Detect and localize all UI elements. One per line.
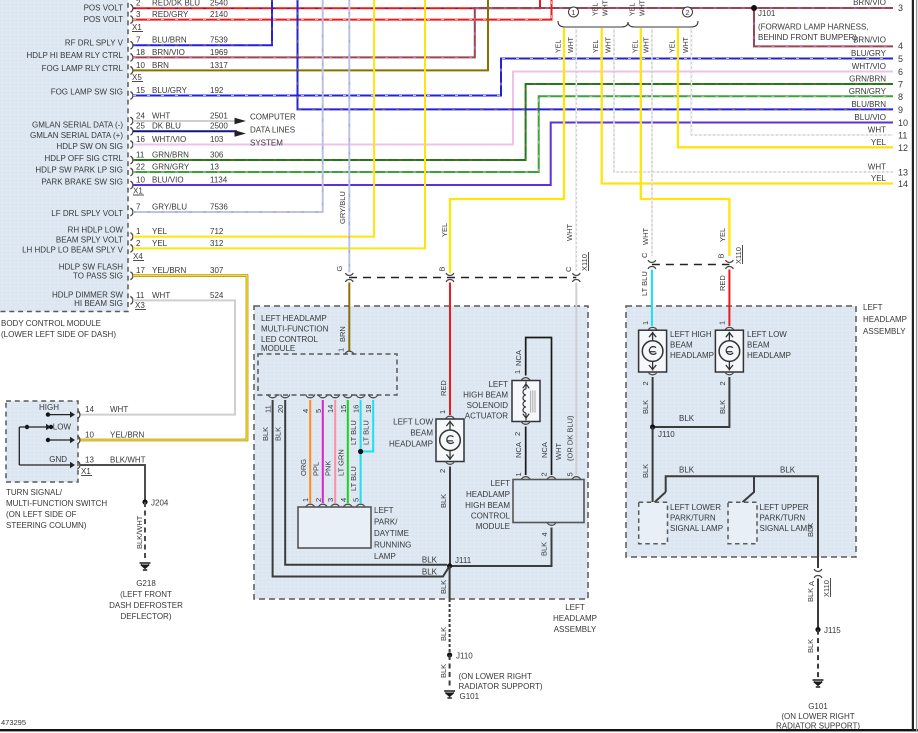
svg-text:(ON LOWER RIGHT: (ON LOWER RIGHT	[781, 712, 854, 721]
svg-text:LT BLU: LT BLU	[349, 420, 358, 445]
svg-text:X110: X110	[822, 580, 831, 597]
svg-text:16: 16	[352, 405, 361, 413]
svg-text:6: 6	[898, 67, 903, 77]
actuator pin 1 bracket	[521, 378, 530, 381]
svg-text:WHT: WHT	[640, 0, 647, 16]
svg-text:BRN/VIO: BRN/VIO	[152, 48, 185, 57]
svg-text:ASSEMBLY: ASSEMBLY	[863, 327, 906, 336]
svg-text:DASH DEFROSTER: DASH DEFROSTER	[109, 601, 183, 610]
svg-text:ORG: ORG	[299, 459, 308, 476]
svg-text:HEADLAMP: HEADLAMP	[553, 614, 597, 623]
wire YEL/BRN 307 BCM to switch pin 10	[80, 276, 247, 440]
svg-text:X1: X1	[132, 23, 142, 32]
svg-text:7: 7	[898, 80, 903, 90]
actuator pin 2 bracket	[521, 421, 530, 424]
svg-text:LEFT: LEFT	[374, 506, 394, 515]
left headlamp assembly box	[254, 306, 588, 599]
svg-text:2: 2	[136, 239, 141, 248]
svg-text:RADIATOR SUPPORT): RADIATOR SUPPORT)	[459, 682, 543, 691]
wire BLK left low beam to J111	[449, 467, 451, 567]
connector X110 terminal B right	[726, 260, 734, 262]
turn signal / multi-function switch S1 box	[6, 401, 78, 482]
svg-text:BLK: BLK	[679, 466, 695, 475]
svg-text:3: 3	[326, 498, 335, 502]
svg-text:BLU/BRN: BLU/BRN	[152, 36, 187, 45]
left upper park/turn signal lamp box	[728, 502, 757, 544]
svg-text:LEFT LOWER: LEFT LOWER	[670, 503, 721, 512]
svg-text:BLK: BLK	[718, 400, 727, 414]
wire YEL to right edge 12	[678, 28, 893, 147]
switch pin brackets + numbers	[77, 411, 79, 419]
svg-text:LT BLU: LT BLU	[362, 420, 371, 445]
svg-text:BLK: BLK	[439, 627, 448, 641]
wire YEL to right edge 14	[602, 28, 893, 184]
HB control module pin 1 bracket	[521, 477, 530, 480]
svg-text:MODULE: MODULE	[476, 522, 510, 531]
wire BLK pin 11 to J111	[273, 400, 450, 577]
wire BLK/WHT switch pin 13 to J204	[80, 465, 145, 502]
svg-text:STEERING COLUMN): STEERING COLUMN)	[6, 521, 87, 530]
wire GRY/BLU from top to X110-G	[348, 0, 350, 273]
lamp bulb: left high beam headlamp	[648, 327, 657, 330]
svg-text:YEL: YEL	[152, 227, 168, 236]
wire PNK pin 14 to lamp pin 3	[334, 400, 336, 503]
svg-text:RED: RED	[718, 275, 727, 291]
svg-text:CONTROL: CONTROL	[471, 512, 511, 521]
svg-text:WHT/VIO: WHT/VIO	[852, 62, 886, 71]
svg-text:X110: X110	[734, 247, 743, 264]
svg-text:BLK: BLK	[806, 639, 815, 653]
svg-text:10: 10	[85, 431, 94, 440]
connector X110 terminal C right	[648, 260, 656, 262]
svg-text:MODULE: MODULE	[261, 344, 295, 353]
svg-text:LH HDLP LO BEAM SPLY V: LH HDLP LO BEAM SPLY V	[22, 245, 124, 254]
svg-text:YEL: YEL	[669, 40, 676, 53]
X110 harness dashed line (right)	[652, 264, 730, 266]
svg-text:2: 2	[136, 0, 141, 8]
svg-text:LEFT HEADLAMP: LEFT HEADLAMP	[261, 314, 327, 323]
svg-text:C: C	[564, 266, 573, 272]
svg-text:11: 11	[264, 405, 273, 413]
svg-text:10: 10	[898, 118, 908, 128]
svg-text:312: 312	[210, 239, 224, 248]
junction J111	[447, 563, 452, 568]
svg-text:ACTUATOR: ACTUATOR	[465, 412, 508, 421]
switch common wire to GND pin	[18, 427, 20, 465]
svg-text:PARK/: PARK/	[374, 518, 398, 527]
svg-text:WHT: WHT	[868, 163, 886, 172]
svg-text:11: 11	[136, 291, 145, 300]
wire BLK high beam to J110	[652, 377, 654, 427]
svg-text:NCA: NCA	[514, 350, 523, 366]
svg-text:LEFT HIGH: LEFT HIGH	[670, 330, 712, 339]
wire BLU/GRY 192 to right edge 5	[133, 59, 893, 96]
svg-text:SOLENOID: SOLENOID	[467, 401, 509, 410]
svg-text:BLK: BLK	[806, 523, 815, 537]
svg-text:BLU/GRY: BLU/GRY	[152, 86, 188, 95]
computer data lines arrow 2	[235, 130, 247, 136]
svg-text:HEADLAMP: HEADLAMP	[863, 315, 907, 324]
svg-text:G101: G101	[808, 702, 828, 711]
wire NCA actuator pin2 to HB module pin 1	[525, 427, 527, 476]
svg-text:WHT: WHT	[554, 443, 563, 460]
right-drawn left headlamp assembly box	[626, 306, 856, 557]
park lamp pin 2 bracket	[318, 504, 327, 507]
svg-text:(LOWER LEFT SIDE OF DASH): (LOWER LEFT SIDE OF DASH)	[1, 330, 116, 339]
BCM pin rows: pin brackets, numbers, wire names, circuit numbers	[130, 4, 132, 12]
svg-text:LT BLU: LT BLU	[349, 466, 358, 491]
page right border	[912, 0, 914, 731]
svg-text:BLU/GRY: BLU/GRY	[851, 49, 887, 58]
svg-text:RED/DK BLU: RED/DK BLU	[152, 0, 200, 8]
svg-text:GRN/GRY: GRN/GRY	[152, 162, 190, 171]
svg-text:HEADLAMP: HEADLAMP	[670, 351, 714, 360]
svg-text:SIGNAL LAMP: SIGNAL LAMP	[670, 524, 723, 533]
wire BLK HB module pin 4 to J111	[450, 528, 552, 567]
wire WHT to right edge 11	[691, 28, 893, 135]
svg-text:WHT: WHT	[152, 291, 170, 300]
svg-text:J204: J204	[151, 499, 169, 508]
svg-text:GRN/GRY: GRN/GRY	[849, 87, 887, 96]
svg-text:GRN/BRN: GRN/BRN	[152, 150, 189, 159]
svg-text:RH HDLP LOW: RH HDLP LOW	[68, 226, 124, 235]
svg-text:PARK/TURN: PARK/TURN	[760, 514, 806, 523]
LED module pin 18 bracket	[369, 394, 378, 397]
svg-text:YEL/BRN: YEL/BRN	[110, 431, 144, 440]
wire BLK to J110 (below assembly)	[449, 599, 451, 655]
svg-text:BLK: BLK	[439, 580, 448, 594]
svg-text:WHT: WHT	[603, 0, 610, 16]
svg-text:20: 20	[276, 405, 285, 413]
svg-text:(ON LEFT SIDE OF: (ON LEFT SIDE OF	[6, 510, 77, 519]
svg-text:2: 2	[686, 10, 690, 17]
svg-text:B: B	[717, 253, 726, 258]
svg-text:BLK: BLK	[780, 466, 796, 475]
svg-text:(ON LOWER RIGHT: (ON LOWER RIGHT	[459, 672, 532, 681]
svg-text:HIGH: HIGH	[39, 403, 59, 412]
svg-text:GND: GND	[49, 455, 67, 464]
svg-text:2: 2	[641, 381, 650, 385]
svg-text:1: 1	[718, 321, 727, 325]
svg-text:NCA: NCA	[514, 442, 523, 458]
svg-text:1: 1	[572, 10, 576, 17]
svg-text:BLK: BLK	[540, 542, 549, 556]
svg-text:LF DRL SPLY VOLT: LF DRL SPLY VOLT	[51, 209, 123, 218]
svg-text:YEL: YEL	[440, 223, 449, 237]
left headlamp high beam control module box	[513, 480, 584, 523]
svg-text:DAYTIME: DAYTIME	[374, 529, 409, 538]
wire BLK ground bus to X110-A	[666, 476, 818, 568]
ground G101	[813, 680, 824, 687]
svg-text:HDLP SW PARK LP SIG: HDLP SW PARK LP SIG	[35, 165, 123, 174]
svg-text:306: 306	[210, 150, 224, 159]
svg-text:524: 524	[210, 291, 224, 300]
wire LT GRN pin 15 to lamp pin 4	[347, 400, 349, 503]
svg-text:BLK: BLK	[261, 427, 270, 441]
svg-text:LEFT: LEFT	[488, 380, 508, 389]
svg-text:X5: X5	[132, 73, 142, 82]
svg-text:BLU/VIO: BLU/VIO	[854, 113, 886, 122]
svg-text:POS VOLT: POS VOLT	[84, 4, 124, 13]
svg-text:MULTI-FUNCTION SWITCH: MULTI-FUNCTION SWITCH	[6, 499, 107, 508]
svg-text:LT BLU: LT BLU	[640, 271, 649, 296]
svg-text:11: 11	[898, 131, 907, 141]
svg-text:12: 12	[898, 143, 908, 153]
svg-text:BLK/WHT: BLK/WHT	[110, 456, 146, 465]
svg-text:MULTI-FUNCTION: MULTI-FUNCTION	[261, 325, 329, 334]
svg-text:PPL: PPL	[311, 462, 320, 476]
wire BLK J115 to G101 (dashed)	[817, 630, 819, 678]
svg-text:COMPUTER: COMPUTER	[250, 112, 296, 121]
svg-text:RADIATOR SUPPORT): RADIATOR SUPPORT)	[776, 722, 860, 731]
wire BLU/VIO 1134 to right edge 10	[133, 123, 893, 186]
svg-text:LED CONTROL: LED CONTROL	[261, 335, 318, 344]
svg-text:X110: X110	[580, 254, 589, 271]
wire YEL to left X110-B	[450, 28, 564, 273]
svg-text:WHT: WHT	[110, 405, 128, 414]
svg-text:LT GRN: LT GRN	[336, 449, 345, 476]
svg-text:17: 17	[136, 266, 145, 275]
wire GRN/GRY 13 to right edge 8	[133, 96, 893, 172]
lamp bulb: left low beam headlamp (centre assembly)	[445, 416, 454, 419]
svg-text:SIGNAL LAMP: SIGNAL LAMP	[760, 524, 813, 533]
svg-text:BLU/VIO: BLU/VIO	[152, 175, 184, 184]
svg-text:15: 15	[136, 86, 145, 95]
svg-text:WHT: WHT	[152, 111, 170, 120]
svg-text:BLK: BLK	[641, 400, 650, 414]
svg-text:PARK BRAKE SW SIG: PARK BRAKE SW SIG	[41, 178, 123, 187]
wire BRN/VIO branch J101 to right edge 4	[754, 8, 893, 46]
svg-text:WHT: WHT	[641, 228, 650, 245]
svg-text:2: 2	[718, 381, 727, 385]
svg-text:GRY/BLU: GRY/BLU	[152, 202, 187, 211]
HB control module pin 4 bracket	[547, 522, 556, 525]
svg-text:14: 14	[326, 405, 335, 413]
wire WHT to left X110-C	[575, 28, 577, 271]
junction J110	[650, 424, 655, 429]
wire BRN X110-G to LED module pin 1	[348, 283, 350, 352]
svg-text:(FORWARD LAMP HARNESS,: (FORWARD LAMP HARNESS,	[758, 23, 869, 32]
svg-text:WHT: WHT	[683, 36, 690, 53]
wire YEL to right X110-B	[641, 28, 730, 256]
svg-text:C: C	[640, 252, 649, 258]
circled group number 1	[569, 7, 579, 17]
svg-text:FOG LAMP RLY CTRL: FOG LAMP RLY CTRL	[42, 64, 124, 73]
junction J204	[142, 499, 147, 504]
svg-text:11: 11	[136, 150, 145, 159]
svg-text:BEHIND FRONT BUMPER): BEHIND FRONT BUMPER)	[758, 33, 857, 42]
svg-text:BLK: BLK	[806, 588, 815, 602]
svg-text:1969: 1969	[210, 48, 228, 57]
junction J110 (centre)	[447, 652, 452, 657]
svg-text:1: 1	[514, 472, 523, 476]
svg-text:13: 13	[210, 162, 219, 171]
svg-text:13: 13	[85, 456, 94, 465]
wire RED/DK BLU 2540 pin2 to top	[133, 0, 540, 8]
svg-text:HEADLAMP: HEADLAMP	[747, 351, 791, 360]
wire BLK/WHT J204 to G218 (dashed)	[144, 502, 146, 561]
svg-text:PNK: PNK	[324, 461, 333, 476]
svg-text:LEFT LOW: LEFT LOW	[747, 330, 787, 339]
wire WHT/VIO 103 to right edge 6	[133, 72, 893, 145]
svg-text:POS VOLT: POS VOLT	[84, 15, 124, 24]
svg-text:1: 1	[513, 370, 522, 374]
connector X110 terminal B	[446, 273, 454, 275]
svg-text:BODY CONTROL MODULE: BODY CONTROL MODULE	[1, 319, 101, 328]
svg-text:J110: J110	[658, 430, 675, 439]
svg-text:GMLAN SERIAL DATA (+): GMLAN SERIAL DATA (+)	[30, 131, 123, 140]
svg-text:5: 5	[898, 54, 903, 64]
circled group number 2	[683, 7, 693, 17]
svg-text:HDLP HI BEAM RLY CTRL: HDLP HI BEAM RLY CTRL	[27, 51, 124, 60]
svg-text:7: 7	[136, 36, 141, 45]
svg-text:BLU/BRN: BLU/BRN	[851, 100, 886, 109]
svg-text:GRN/BRN: GRN/BRN	[849, 75, 886, 84]
svg-text:WHT: WHT	[643, 36, 650, 53]
svg-text:WHT: WHT	[606, 36, 613, 53]
svg-text:1134: 1134	[210, 175, 228, 184]
svg-text:24: 24	[136, 111, 145, 120]
svg-text:BEAM SPLY VOLT: BEAM SPLY VOLT	[56, 235, 123, 244]
computer data lines arrow 1	[235, 118, 247, 124]
LED module pin 4 bracket	[306, 394, 315, 397]
LED module pin 16 bracket	[356, 394, 365, 397]
svg-text:RED/GRY: RED/GRY	[152, 10, 189, 19]
wire BRN/VIO 1969 pin18 to right edge 3	[133, 8, 893, 57]
svg-text:BEAM: BEAM	[670, 341, 693, 350]
svg-text:BEAM: BEAM	[410, 429, 433, 438]
svg-text:1: 1	[337, 348, 346, 352]
svg-text:HIGH BEAM: HIGH BEAM	[463, 391, 508, 400]
svg-text:WHT: WHT	[868, 126, 886, 135]
svg-text:X1: X1	[81, 467, 91, 476]
svg-text:WHT: WHT	[568, 36, 575, 53]
svg-text:YEL: YEL	[152, 239, 168, 248]
body control module U1 (BCM) box	[0, 0, 128, 312]
svg-text:BLK: BLK	[439, 664, 448, 678]
connector X110 terminal C	[572, 273, 580, 275]
LED module pin 15 bracket	[343, 394, 352, 397]
wire LT BLU pin 16 to lamp pin 5	[360, 400, 362, 503]
LED module pin 1 bracket	[345, 351, 354, 354]
wire WHT 524 BCM to switch pin 14	[80, 300, 235, 414]
svg-text:J110: J110	[456, 652, 473, 661]
svg-text:5: 5	[352, 498, 361, 502]
left headlamp multi-function LED control module box	[258, 354, 397, 395]
svg-text:7539: 7539	[210, 36, 228, 45]
svg-text:HDLP SW FLASH: HDLP SW FLASH	[59, 262, 124, 271]
park lamp pin 4 bracket	[343, 504, 352, 507]
park lamp pin 3 bracket	[331, 504, 340, 507]
svg-text:307: 307	[210, 266, 224, 275]
svg-text:HEADLAMP: HEADLAMP	[466, 490, 510, 499]
svg-text:2: 2	[314, 498, 323, 502]
svg-text:BLK: BLK	[439, 494, 448, 508]
svg-text:GMLAN SERIAL DATA (-): GMLAN SERIAL DATA (-)	[32, 120, 123, 129]
svg-text:5: 5	[314, 409, 323, 413]
svg-text:DK BLU: DK BLU	[152, 122, 181, 131]
svg-text:BRN/VIO: BRN/VIO	[853, 36, 886, 45]
svg-text:YEL: YEL	[632, 40, 639, 53]
svg-text:LEFT: LEFT	[565, 603, 585, 612]
wire WHT (OR DK BLU) X110-C to HB control module pin 5	[575, 283, 577, 476]
ground G101 (centre)	[444, 691, 455, 698]
svg-text:4: 4	[339, 498, 348, 502]
wire GRN/BRN 306 to right edge 7	[133, 84, 893, 160]
wire NCA loop actuator pin1 to HB module pin 2	[526, 338, 552, 476]
svg-text:X1: X1	[133, 187, 143, 196]
svg-text:18: 18	[136, 48, 145, 57]
svg-text:FOG LAMP SW SIG: FOG LAMP SW SIG	[51, 87, 123, 96]
wire LT BLU pin 18 joining pin 16 wire	[361, 400, 374, 452]
svg-text:LAMP: LAMP	[374, 552, 396, 561]
svg-text:14: 14	[898, 179, 908, 189]
switch contact to pin 10	[46, 438, 50, 442]
svg-text:B: B	[438, 266, 447, 271]
LED module pin 14 bracket	[331, 394, 340, 397]
svg-text:WHT: WHT	[565, 224, 574, 241]
svg-text:RUNNING: RUNNING	[374, 541, 411, 550]
harness brace	[558, 21, 698, 27]
svg-text:4: 4	[301, 409, 310, 413]
svg-text:RF DRL SPLY V: RF DRL SPLY V	[65, 39, 124, 48]
wire RED/GRY 2140 pin3 to top	[133, 0, 552, 20]
svg-text:YEL: YEL	[593, 40, 600, 53]
svg-text:HEADLAMP: HEADLAMP	[389, 440, 433, 449]
svg-text:A: A	[807, 581, 816, 586]
wire WHT to right edge 13	[614, 28, 893, 172]
park lamp pin 1 bracket	[306, 504, 315, 507]
svg-text:1: 1	[641, 321, 650, 325]
svg-text:LOW: LOW	[53, 423, 72, 432]
svg-text:18: 18	[364, 405, 373, 413]
svg-text:1: 1	[438, 410, 447, 414]
connector X110 terminal G	[345, 273, 353, 275]
HB control module pin 5 bracket	[572, 477, 581, 480]
svg-text:2501: 2501	[210, 111, 228, 120]
svg-text:SYSTEM: SYSTEM	[250, 139, 283, 148]
svg-text:NCA: NCA	[540, 442, 549, 458]
svg-text:5: 5	[566, 472, 575, 476]
junction J115	[815, 627, 820, 632]
svg-text:TURN SIGNAL/: TURN SIGNAL/	[6, 488, 63, 497]
wire BLK J110 into left lower park lamp	[652, 427, 654, 502]
svg-text:YEL: YEL	[871, 174, 887, 183]
svg-text:2: 2	[540, 472, 549, 476]
svg-text:3: 3	[898, 3, 903, 13]
svg-text:BLK: BLK	[274, 427, 283, 441]
svg-text:2540: 2540	[210, 0, 228, 8]
svg-text:G218: G218	[136, 579, 156, 588]
svg-text:7: 7	[136, 202, 141, 211]
svg-text:473295: 473295	[1, 718, 26, 727]
svg-text:YEL: YEL	[593, 3, 600, 16]
svg-text:YEL: YEL	[718, 228, 727, 242]
wire BLU/BRN 7539 pin7 to top	[133, 0, 272, 45]
svg-text:2140: 2140	[210, 10, 228, 19]
svg-text:BRN: BRN	[338, 326, 347, 342]
svg-text:22: 22	[136, 162, 145, 171]
svg-text:DATA LINES: DATA LINES	[250, 125, 295, 134]
svg-text:LEFT LOW: LEFT LOW	[393, 418, 433, 427]
wire WHT to right X110-C	[651, 28, 653, 256]
svg-text:BLK: BLK	[422, 568, 438, 577]
svg-text:10: 10	[136, 61, 145, 70]
page bottom border	[0, 729, 918, 731]
svg-text:X4: X4	[133, 252, 143, 261]
svg-text:BRN: BRN	[152, 61, 169, 70]
svg-text:8: 8	[898, 92, 903, 102]
